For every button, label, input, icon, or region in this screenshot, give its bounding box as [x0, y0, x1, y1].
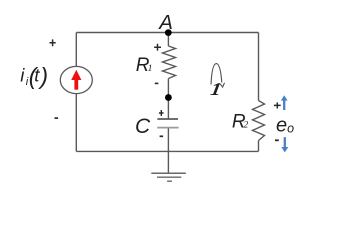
- svg-text:1: 1: [209, 80, 223, 100]
- svg-text:eo: eo: [276, 115, 294, 137]
- svg-text:A: A: [157, 11, 173, 34]
- svg-text:i: i: [20, 64, 25, 85]
- svg-text:t: t: [34, 64, 40, 85]
- svg-text:R1: R1: [136, 55, 153, 76]
- svg-text:C: C: [135, 115, 151, 138]
- svg-text:R2: R2: [232, 112, 249, 133]
